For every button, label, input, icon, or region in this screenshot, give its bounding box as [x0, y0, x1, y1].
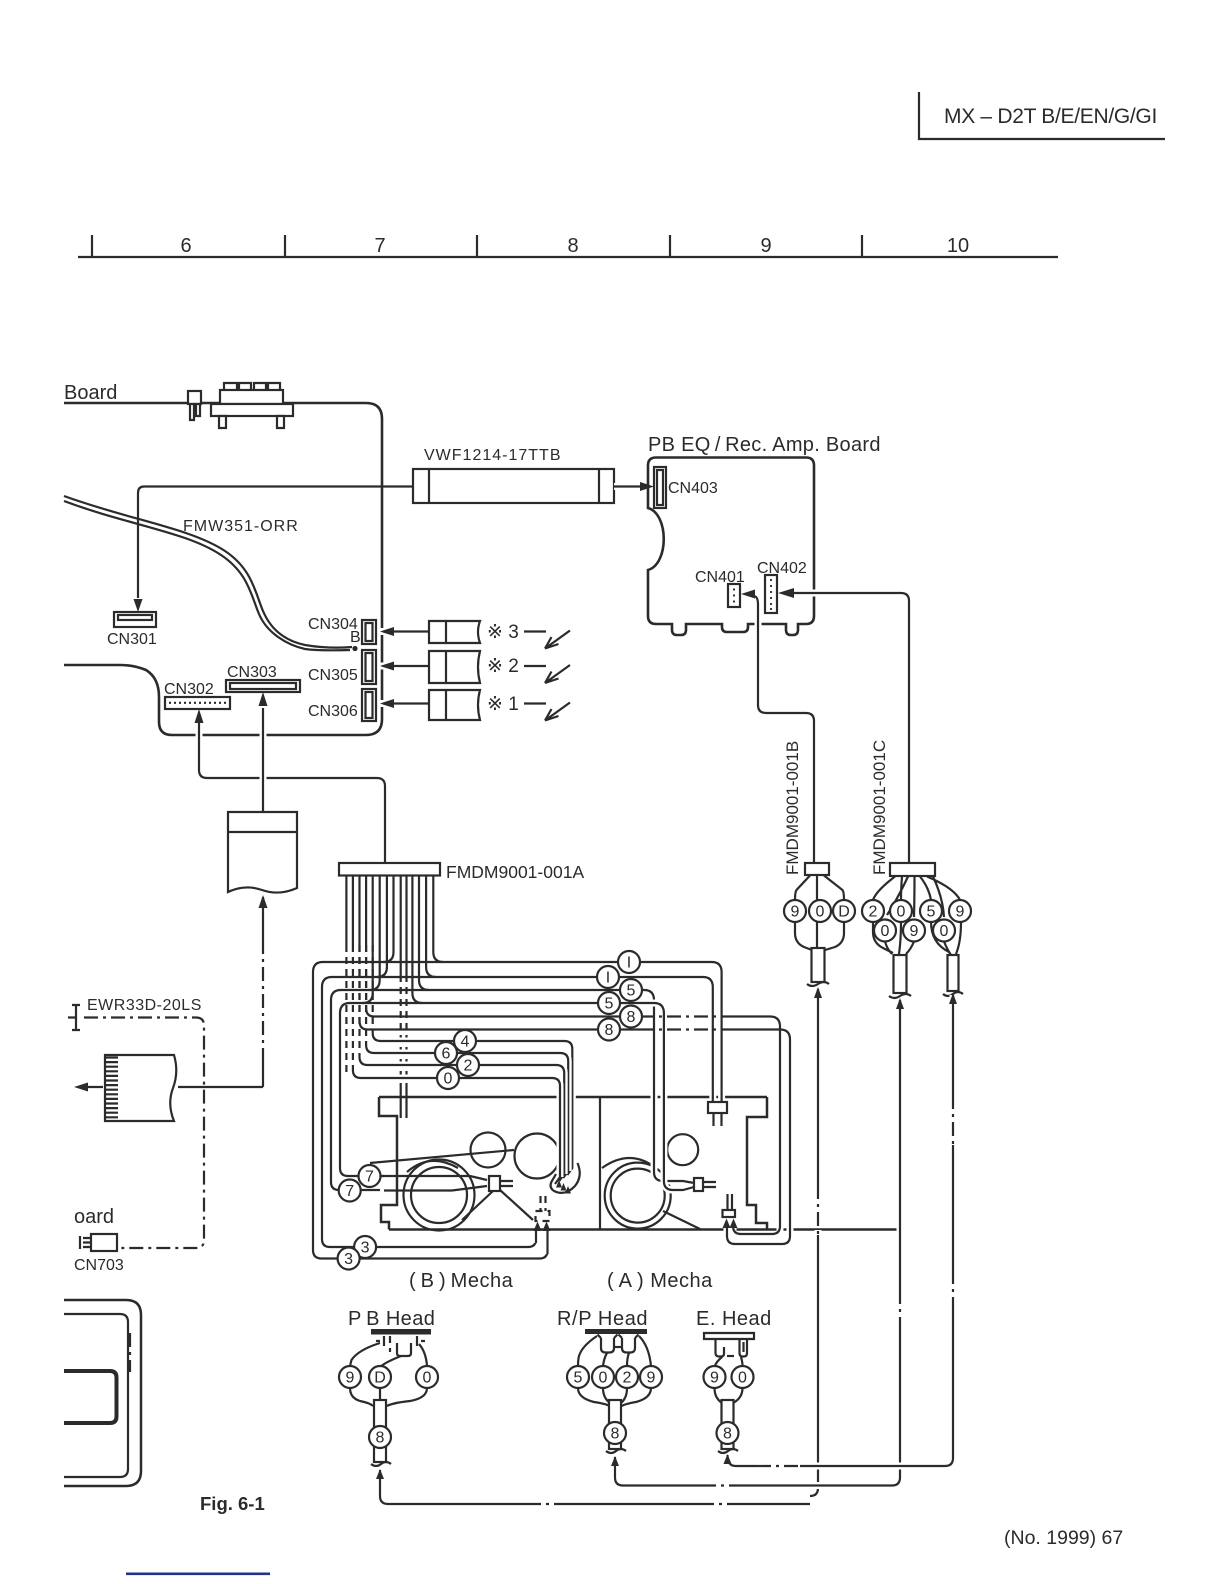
svg-text:9: 9 — [647, 1370, 656, 1387]
C bundle wire markers 2,0,5,9 / 0,9,0 — [862, 900, 884, 922]
svg-text:6: 6 — [442, 1046, 451, 1063]
small plug on board top edge — [188, 391, 201, 420]
svg-text:FMDM9001-001B: FMDM9001-001B — [783, 741, 802, 875]
svg-text:0: 0 — [816, 904, 825, 921]
(A) mecha pinch roller — [667, 1134, 698, 1165]
svg-text:2: 2 — [623, 1370, 632, 1387]
page header model box — [919, 92, 1165, 139]
head circles 9 D 0 for PB head — [339, 1366, 361, 1388]
svg-text:I: I — [606, 970, 610, 987]
dash-dot lead from EWR33D-20LS down to CN703 — [84, 1018, 204, 1249]
arrow from ribbon into CN403 — [614, 482, 654, 491]
blue footer rule — [126, 1573, 270, 1576]
cable stub with arrow into CN306 — [378, 690, 570, 721]
svg-text:5: 5 — [574, 1370, 583, 1387]
flat cable VWF1214-17TTB — [413, 447, 614, 503]
svg-text:7: 7 — [345, 1183, 354, 1200]
dash-dot lead continuing down to connector block — [259, 895, 268, 1087]
(B) mecha erase head (dashed) — [534, 1196, 551, 1254]
svg-text:9: 9 — [760, 235, 771, 257]
connector CN402 — [64, 560, 1123, 1575]
svg-text:0: 0 — [423, 1370, 432, 1387]
wires 4,6,2,0 to (B) head cylinder — [373, 945, 573, 1175]
svg-text:( A ) Mecha: ( A ) Mecha — [607, 1270, 713, 1292]
svg-text:CN305: CN305 — [308, 667, 358, 684]
svg-text:9: 9 — [346, 1370, 355, 1387]
EWR33D-20LS lead-out label — [68, 997, 202, 1030]
(A) mecha belts — [602, 1158, 700, 1229]
E head wire routed to FMDM9001-001C — [724, 1454, 946, 1466]
svg-text:CN703: CN703 — [74, 1257, 124, 1274]
svg-text:8: 8 — [627, 1009, 636, 1026]
B sleeve — [807, 948, 829, 986]
svg-text:D: D — [374, 1370, 386, 1387]
svg-text:※ 2: ※ 2 — [487, 656, 519, 677]
arrow into CN301 — [134, 599, 143, 612]
multi-pin connector on board top edge — [211, 383, 293, 428]
wire marker 3 — [354, 1236, 376, 1258]
svg-text:R/P Head: R/P Head — [557, 1308, 648, 1330]
connector CN303 — [226, 664, 300, 692]
svg-text:CN303: CN303 — [227, 664, 277, 681]
cable stub with arrow into CN305 — [378, 651, 570, 683]
PB EQ/Rec. Amp. Board outline — [648, 434, 881, 635]
svg-text:( B ) Mecha: ( B ) Mecha — [409, 1270, 514, 1292]
svg-text:CN301: CN301 — [107, 631, 157, 648]
svg-text:10: 10 — [947, 235, 969, 257]
connector CN301 — [107, 612, 157, 648]
svg-text:Fig. 6-1: Fig. 6-1 — [200, 1493, 265, 1514]
svg-text:3: 3 — [361, 1240, 370, 1257]
head circles 9 0 for E head — [704, 1366, 726, 1388]
(B) mecha head cylinder — [515, 1134, 560, 1179]
svg-text:E. Head: E. Head — [696, 1308, 772, 1330]
(A) mecha erase head — [723, 1194, 738, 1228]
svg-text:5: 5 — [927, 904, 936, 921]
wire 7 upper left loop — [331, 945, 380, 1190]
hidden (dashed) harness wire loose end — [345, 945, 347, 1072]
wire 3 inner left loop — [322, 945, 536, 1247]
head circles 5 0 2 9 for R/P head — [567, 1366, 589, 1388]
arrow into CN401 — [741, 590, 755, 599]
svg-text:0: 0 — [940, 923, 949, 940]
svg-text:9: 9 — [956, 904, 965, 921]
B bundle converge to sleeve — [795, 922, 844, 950]
wire from board to VWF1214-17TTB ribbon — [138, 487, 413, 599]
wire marker 8 — [620, 1006, 642, 1028]
svg-text:5: 5 — [605, 996, 614, 1013]
wire marker 5 — [620, 979, 642, 1001]
svg-text:0: 0 — [897, 904, 906, 921]
wire 1 upper run to (A) capstan plug — [433, 945, 721, 1102]
svg-text:VWF1214-17TTB: VWF1214-17TTB — [424, 447, 561, 464]
svg-text:CN403: CN403 — [668, 480, 718, 497]
harness connector FMDM9001-001B — [805, 863, 829, 875]
mecha bottom edge — [389, 1228, 898, 1231]
C sleeve left — [889, 955, 911, 998]
connector CN306 — [308, 689, 376, 721]
svg-text:8: 8 — [376, 1430, 385, 1447]
svg-text:EWR33D-20LS: EWR33D-20LS — [87, 997, 202, 1014]
PB head wire routed to FMDM9001-001B — [376, 1469, 810, 1504]
(B) mecha left outline — [379, 1097, 397, 1230]
harness wires leaving connector — [346, 876, 433, 946]
wire marker I — [618, 951, 640, 973]
svg-text:9: 9 — [910, 923, 919, 940]
middle pair wires down to (B) mecha — [401, 945, 407, 1118]
filler runs under harness bundle — [363, 962, 444, 1003]
wire marker 3 — [338, 1248, 360, 1270]
wire marker 7 — [339, 1180, 361, 1202]
C sleeve right — [943, 955, 963, 996]
svg-text:2: 2 — [464, 1058, 473, 1075]
svg-text:0: 0 — [599, 1370, 608, 1387]
svg-text:8: 8 — [723, 1426, 732, 1443]
wire 3 outer left loop — [313, 945, 548, 1259]
(A) mecha reel — [605, 1163, 671, 1229]
wire marker 0 — [437, 1067, 459, 1089]
wire marker I — [597, 966, 619, 988]
R/P head lead wires — [578, 1336, 651, 1366]
arrow into CN402 — [778, 588, 794, 598]
svg-text:8: 8 — [567, 235, 578, 257]
PB head cable sleeve — [374, 1400, 386, 1462]
svg-text:6: 6 — [180, 235, 191, 257]
wire marker 7 — [359, 1165, 381, 1187]
wire 7 pair to (B) capstan plug — [380, 1176, 513, 1191]
wire FMW351-ORR (curved twin lead) — [64, 496, 358, 651]
E head lead wires — [715, 1357, 743, 1366]
connector CN305 — [308, 650, 376, 684]
R/P head wire routed to FMDM9001-001C — [611, 1456, 892, 1486]
svg-text:0: 0 — [738, 1370, 747, 1387]
svg-text:D: D — [838, 904, 850, 921]
wire from CN402 down to FMDM9001-001C bundle — [791, 593, 909, 863]
wire 1 lower run — [426, 945, 713, 1102]
(B) mecha belts — [370, 1150, 533, 1220]
svg-text:4: 4 — [461, 1034, 470, 1051]
svg-text:FMW351-ORR: FMW351-ORR — [183, 518, 299, 535]
R/P Head symbol — [557, 1308, 648, 1353]
svg-text:P B Head: P B Head — [348, 1308, 435, 1330]
wire 8 upper run (dash-dot) down right side — [366, 945, 780, 1234]
wire 5 lower run — [412, 945, 694, 1190]
capstan plug (A) for wires 1 — [708, 1102, 727, 1126]
svg-text:oard: oard — [74, 1206, 114, 1228]
E. Head symbol — [696, 1308, 772, 1357]
connector CN401 — [64, 560, 1123, 1575]
svg-text:Board: Board — [64, 382, 117, 404]
harness connector FMDM9001-001C — [890, 863, 935, 876]
wire marker 6 — [435, 1042, 457, 1064]
connector CN304 — [308, 616, 376, 644]
wire from shielded cable up to CN303 — [259, 692, 268, 812]
(B)/(A) mecha chassis top edge — [379, 1096, 767, 1099]
wire 5 upper run to (A) capstan motor — [419, 945, 694, 1183]
wire 7 lower left loop — [340, 945, 384, 1176]
svg-text:FMDM9001-001A: FMDM9001-001A — [446, 862, 584, 882]
B bundle wire markers 9,0,D — [784, 900, 806, 922]
PB head lead wires — [350, 1343, 427, 1366]
svg-text:8: 8 — [605, 1022, 614, 1039]
(A) mecha motor plug — [694, 1178, 716, 1191]
svg-text:9: 9 — [710, 1370, 719, 1387]
ruler scale with tick marks 6-10 — [78, 235, 1058, 257]
PB Head symbol — [348, 1308, 435, 1356]
svg-text:7: 7 — [365, 1169, 374, 1186]
shielded flat cable to CN303 (with break) — [228, 812, 297, 893]
(B) mecha pinch roller — [471, 1133, 506, 1168]
hooked cable end pouch at head cylinder — [551, 1163, 580, 1193]
main board outline (Board, partially cropped) — [64, 382, 382, 735]
svg-text:MX – D2T B/E/EN/G/GI: MX – D2T B/E/EN/G/GI — [944, 105, 1157, 128]
svg-text:9: 9 — [791, 904, 800, 921]
C bundle converge to sleeves — [873, 922, 961, 955]
svg-text:FMDM9001-001C: FMDM9001-001C — [870, 740, 889, 875]
wire from CN401 down to FMDM9001-001B bundle — [755, 596, 814, 863]
svg-text:8: 8 — [611, 1426, 620, 1443]
connector CN302 — [164, 681, 230, 709]
connector block with break (to EWR33D-20LS) — [74, 1055, 176, 1121]
svg-text:0: 0 — [444, 1071, 453, 1088]
svg-text:CN306: CN306 — [308, 703, 358, 720]
wire marker 8 — [598, 1019, 620, 1041]
wire marker 5 — [598, 992, 620, 1014]
harness connector FMDM9001-001A — [339, 863, 440, 876]
wire marker 2 — [457, 1054, 479, 1076]
svg-text:7: 7 — [374, 235, 385, 257]
svg-text:CN402: CN402 — [757, 560, 807, 577]
bottom-left board outline (cropped) — [64, 1300, 141, 1486]
svg-text:CN401: CN401 — [695, 569, 745, 586]
mecha divider between (B) and (A) — [599, 1097, 601, 1230]
svg-text:0: 0 — [881, 923, 890, 940]
(B) mecha reel — [404, 1160, 475, 1231]
wire marker 4 — [454, 1030, 476, 1052]
B bundle fan-out wires — [795, 876, 844, 901]
C bundle fan-out wires — [873, 877, 960, 918]
svg-text:5: 5 — [627, 983, 636, 1000]
wire from connector block to CN303 lead — [178, 1086, 263, 1088]
svg-text:※ 3: ※ 3 — [487, 622, 519, 643]
R/P head cable sleeve — [609, 1400, 621, 1449]
wire from C right sleeve down to E head run — [945, 993, 957, 1466]
svg-text:※ 1: ※ 1 — [487, 694, 519, 715]
wire from B sleeve down to PB head run — [810, 987, 822, 1496]
(A) mecha right bracket — [747, 1097, 767, 1230]
wire from C left sleeve down to R/P head run — [892, 998, 904, 1486]
svg-text:3: 3 — [344, 1251, 353, 1268]
cable stub with arrow into CN304 — [378, 621, 570, 649]
svg-text:2: 2 — [869, 904, 878, 921]
wire from FMDM9001-001A up to CN302 — [195, 709, 386, 863]
svg-text:CN302: CN302 — [164, 681, 214, 698]
connector CN403 — [654, 467, 718, 508]
E head cable sleeve — [722, 1400, 734, 1449]
svg-text:B: B — [350, 629, 361, 646]
wire 8 lower run (dash-dot) — [360, 945, 791, 1244]
svg-text:(No. 1999) 67: (No. 1999) 67 — [1004, 1527, 1123, 1549]
svg-text:I: I — [627, 955, 631, 972]
connector CN703 — [74, 1234, 124, 1274]
svg-text:PB EQ / Rec. Amp. Board: PB EQ / Rec. Amp. Board — [648, 434, 881, 456]
